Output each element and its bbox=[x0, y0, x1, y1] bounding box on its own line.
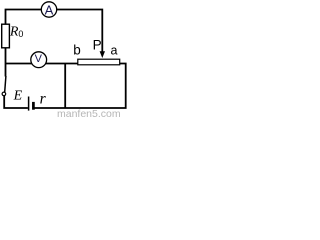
svg-text:E: E bbox=[13, 88, 23, 103]
svg-text:0: 0 bbox=[18, 29, 23, 39]
svg-text:b: b bbox=[73, 42, 81, 57]
svg-text:A: A bbox=[45, 2, 54, 17]
wire below switch + bottom left bbox=[4, 96, 28, 108]
svg-text:r: r bbox=[40, 91, 47, 108]
wire bottom right of battery to right corner and up bbox=[34, 64, 125, 109]
wire top: left corner to right corner bbox=[6, 10, 103, 52]
voltmeter V bbox=[31, 52, 47, 68]
wire left: below R0 to switch bbox=[5, 48, 7, 77]
battery long plate bbox=[28, 97, 30, 111]
slider arrowhead P bbox=[100, 51, 105, 58]
switch lever bbox=[5, 76, 6, 92]
svg-text:a: a bbox=[111, 43, 118, 57]
ammeter A bbox=[41, 2, 56, 17]
wire junction down bbox=[64, 64, 66, 109]
svg-text:R: R bbox=[9, 25, 19, 40]
svg-text:manfen5.com: manfen5.com bbox=[57, 108, 121, 119]
switch circle bbox=[2, 92, 6, 96]
svg-text:P: P bbox=[93, 37, 102, 52]
resistor R0 box bbox=[2, 24, 10, 48]
wire voltmeter branch bbox=[6, 63, 78, 65]
battery short thick plate bbox=[32, 102, 35, 110]
svg-text:V: V bbox=[35, 53, 43, 65]
potentiometer box bbox=[78, 59, 120, 65]
